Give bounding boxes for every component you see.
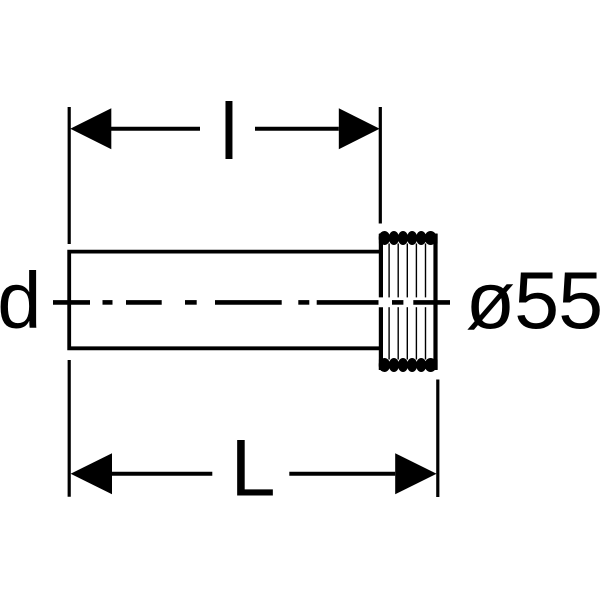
dimension l: line left segment [111,127,200,131]
centre line [53,300,450,305]
dimension L: right extension line [436,380,439,498]
thread left edge [379,234,383,297]
thread shoulder fills [379,234,438,370]
svg-text:d: d [0,256,42,345]
dimension l: right arrowhead [339,108,380,149]
dimension l: left arrowhead [70,108,111,149]
dimension L: left arrowhead [71,453,112,494]
dimension l: right extension line [379,107,382,224]
tube body outline [69,252,379,349]
dimension l: line right segment [255,127,339,131]
dimension L: line left segment [112,472,212,476]
thread root lines [389,244,425,360]
svg-text:L: L [230,423,275,513]
svg-text:l: l [220,87,238,176]
thread crest band top [379,231,437,245]
thread right edge [433,234,437,370]
svg-text:ø55: ø55 [466,256,600,346]
dimension l: left extension line [68,107,71,244]
dimension L: left extension line [68,360,71,497]
dimension L: line right segment [289,472,395,476]
thread crest band bottom [379,358,437,372]
dimension L: right arrowhead [395,453,436,494]
